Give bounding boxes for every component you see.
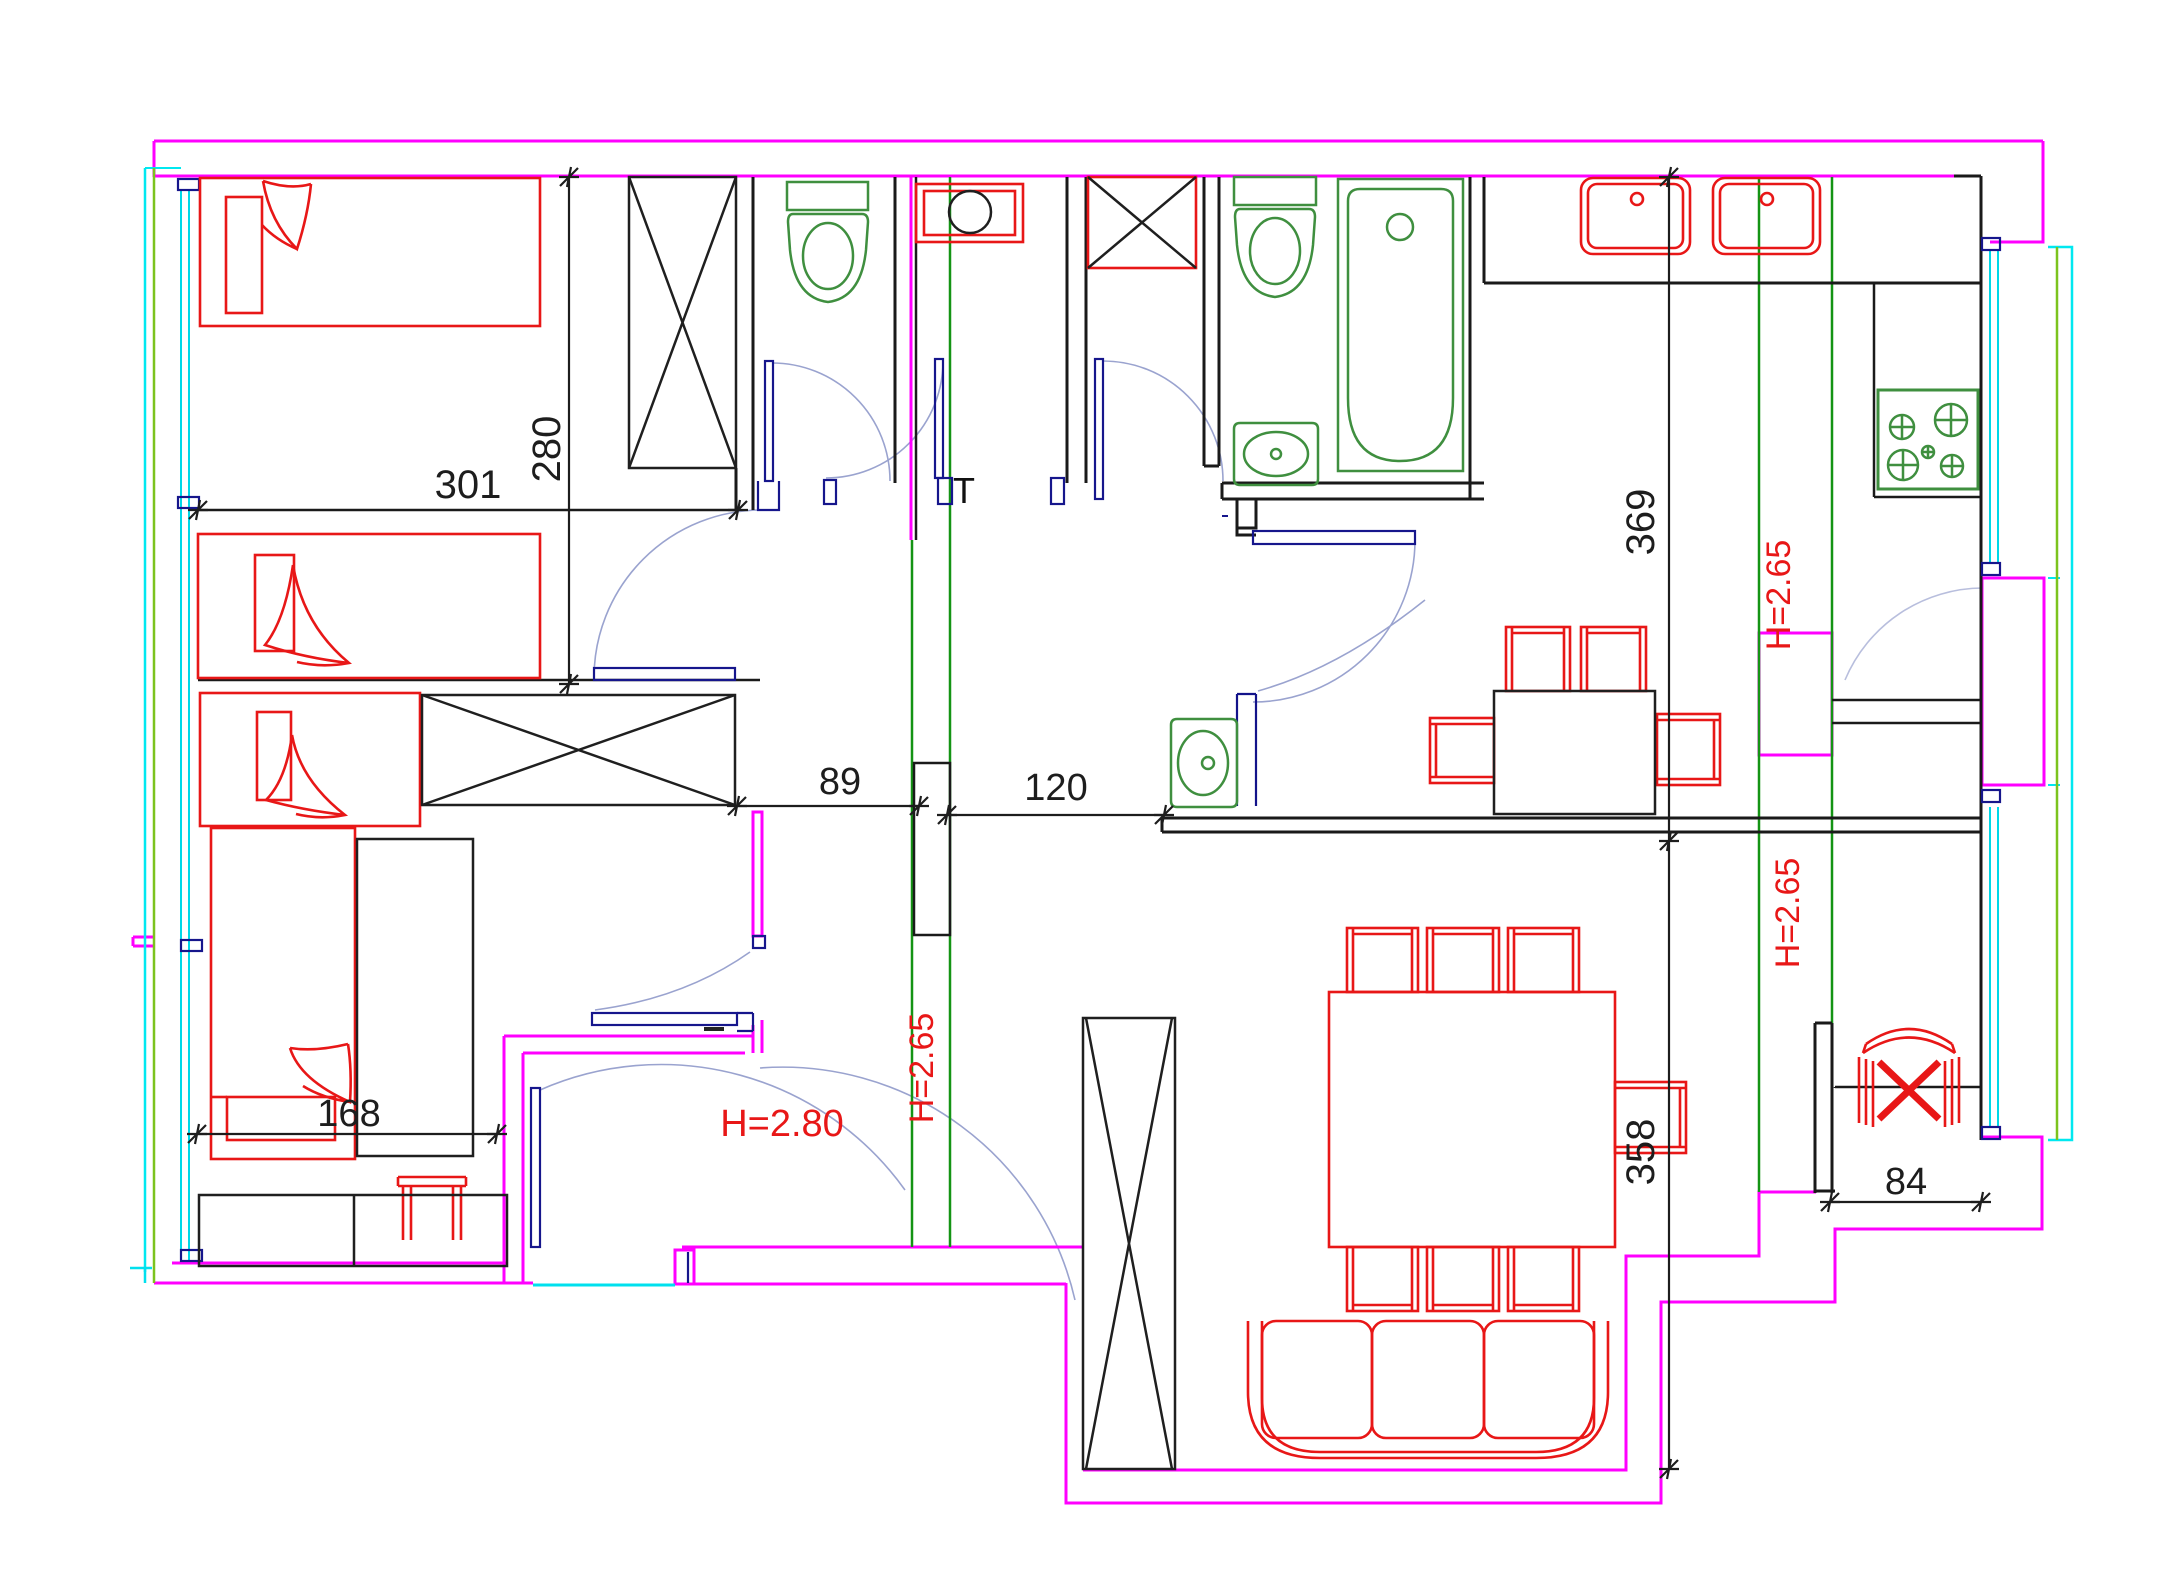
svg-text:89: 89 (819, 761, 861, 803)
bed 3 blanket curl (266, 735, 345, 817)
outer boundary left jog (153, 141, 156, 177)
kitchen sink 1 outer (1581, 178, 1690, 254)
kitchen sink 1 tap (1631, 193, 1643, 205)
pantry niche magenta (1759, 633, 1832, 755)
balcony door frame dining (1982, 578, 2044, 785)
bottom entrance sill cyan (533, 1284, 675, 1287)
small table chair left (1430, 718, 1494, 783)
desk chair backrest arc (1863, 1029, 1955, 1053)
shower tray outer (916, 184, 1023, 242)
hob burner 2 (1935, 404, 1967, 436)
desk chair X (1879, 1062, 1939, 1119)
sofa seat 1 (1262, 1321, 1372, 1438)
door swing arc bedroom2 door (594, 510, 762, 678)
svg-text:168: 168 (317, 1093, 380, 1135)
hob burner 4 (1941, 455, 1963, 477)
svg-text:84: 84 (1885, 1161, 1927, 1203)
dim 120 line (947, 814, 1164, 816)
desk chair left arm (1859, 1057, 1873, 1127)
washing machine red box (1088, 177, 1196, 268)
small table chair top-right (1581, 627, 1646, 691)
sofa seat 2 (1372, 1321, 1484, 1438)
door swing arc bedroom3 door (595, 952, 750, 1010)
hall south wall outer magenta (689, 1283, 1066, 1286)
door leaf bedroom1 (765, 361, 773, 481)
kitchen pass shelf lines (1832, 700, 1980, 723)
toilet 2 seat ellipse (1250, 218, 1300, 284)
corridor wall black line (915, 177, 918, 540)
hall pier lower magenta (753, 1020, 762, 1053)
bed 4 pillow (227, 1097, 335, 1140)
lintel bar bedroom3 door (592, 1013, 737, 1025)
right facade cyan mid caps (2048, 578, 2060, 785)
door swing arc bedroom1 door (772, 363, 890, 481)
WC1 east wall (894, 177, 897, 483)
green beam line corridor east (949, 177, 952, 1247)
dim 84 line (1830, 1201, 1981, 1203)
top wall black segment right (1954, 175, 1981, 178)
svg-text:H=2.65: H=2.65 (1760, 540, 1798, 651)
door swing arc WC2 door (1103, 361, 1223, 481)
sofa living room outer shell (1248, 1321, 1608, 1458)
dining chair top 3 (1508, 928, 1579, 992)
left facade green line (153, 168, 156, 1283)
black dash on lintel (704, 1027, 724, 1031)
bottom-left boundary magenta (154, 1282, 533, 1285)
svg-text:H=2.65: H=2.65 (1769, 858, 1807, 969)
right window bracket 4 (1982, 1127, 2000, 1139)
svg-text:369: 369 (1619, 489, 1663, 556)
bathroom west wall double (1204, 177, 1219, 466)
right window bracket 3 (1982, 790, 2000, 802)
hall west wall inner magenta (523, 1053, 745, 1284)
kitchen counter line (1484, 282, 1980, 285)
dim 369 line (1668, 177, 1670, 841)
bathroom sink (1234, 423, 1318, 485)
dim 301 ticks (188, 500, 208, 520)
entrance pier magenta (675, 1250, 694, 1284)
bedroom2-3 dividing wall (198, 679, 760, 682)
WC1 west wall double (736, 177, 753, 510)
dining chair right (1615, 1082, 1686, 1153)
hob square (1878, 390, 1978, 489)
toilet 2 cistern (1234, 177, 1316, 205)
door jamb bedroom3 pier bracket (753, 936, 765, 948)
desk right black edge (1834, 1087, 1837, 1088)
toilet 2 bowl (1235, 209, 1315, 297)
desk bedroom3 (357, 839, 473, 1156)
lintel bar bedroom3 corner (737, 1013, 753, 1031)
small table kitchen (1494, 691, 1655, 814)
window sill bracket left bottom (181, 1250, 202, 1261)
toilet 1 seat ellipse (803, 223, 853, 289)
bed 3 (200, 693, 420, 826)
left wall jog magenta (133, 937, 155, 946)
hall west wall outer magenta (504, 1036, 754, 1283)
inner wall living room magenta (1083, 1192, 1816, 1470)
shower tray inner (924, 191, 1015, 235)
window sill bracket left mid (178, 497, 199, 508)
green beam line corridor west (911, 540, 914, 1247)
dining chair bottom 1 (1347, 1247, 1418, 1311)
outer boundary right top vertical (1990, 141, 2043, 242)
bed 1 (200, 178, 540, 326)
dining chair bottom 3 (1508, 1247, 1579, 1311)
bathtub outer (1338, 179, 1463, 471)
inner top wall magenta (154, 175, 1954, 178)
door swing arc WC3 door (1258, 600, 1425, 691)
washing machine X black cross (1088, 177, 1196, 268)
dim 358 line (1668, 841, 1670, 1469)
green beam line kitchen east (1831, 177, 1834, 1023)
hall south wall inner magenta (682, 1246, 1083, 1249)
outer boundary top magenta (154, 140, 2043, 143)
bed 4 inner edge (211, 1096, 227, 1099)
dining room north wall double (1162, 818, 1980, 832)
dining chair bottom 2 (1427, 1247, 1499, 1311)
window sill bracket left low (181, 940, 202, 951)
right window glazing lower cyan (1990, 807, 1998, 1127)
door swing arc entrance door leaf2 (760, 1067, 1075, 1300)
desk wall line right (1835, 1086, 1982, 1089)
window sill bracket left top (178, 179, 199, 190)
door swing arc WC shower door (826, 361, 943, 478)
svg-text:120: 120 (1024, 767, 1087, 809)
bathroom sink basin (1244, 432, 1308, 476)
hob burner center (1922, 446, 1934, 458)
door foot WC1 (824, 480, 836, 504)
svg-text:280: 280 (525, 416, 569, 483)
hob counter side line (1873, 283, 1876, 497)
wall bathroom-kitchen west line (1469, 177, 1472, 499)
kitchen sink 2 outer (1713, 178, 1820, 254)
WC3 jamb (1237, 694, 1256, 806)
wardrobe 1 bedroom1 (629, 177, 736, 468)
bed 2 (198, 534, 540, 678)
desk chair right arm (1945, 1057, 1959, 1127)
left facade cyan top caps (145, 167, 181, 169)
sofa living room outer (1262, 1321, 1594, 1452)
wardrobe 2 bedroom2 (422, 695, 735, 805)
WC3 toilet body (1171, 719, 1237, 807)
bed 4 sofa-bed (211, 828, 355, 1159)
right window bracket 1 (1982, 238, 2000, 250)
sofa seat 3 (1484, 1321, 1594, 1438)
bathtub inner (1348, 189, 1453, 461)
bedroom3 door pier magenta (753, 812, 762, 936)
WC3 toilet bowl ellipse (1178, 731, 1228, 795)
dim 280 line (568, 177, 570, 684)
hob burner 3 (1888, 450, 1918, 480)
bathroom door step lower (1237, 528, 1256, 535)
bathroom door step black (1237, 499, 1256, 528)
bed 2 pillow (255, 555, 294, 651)
svg-text:301: 301 (435, 463, 502, 507)
bottom-left corner cyan (130, 1268, 152, 1283)
svg-text:H=2.80: H=2.80 (720, 1103, 844, 1145)
utility shaft column (914, 763, 950, 935)
kitchen right wall black (1980, 176, 1983, 1140)
bathroom south wall double (1222, 483, 1484, 499)
left facade cyan line outer (144, 168, 147, 1272)
left facade window glazing cyan pair (181, 190, 189, 1262)
wall bathroom-kitchen east line (1483, 177, 1486, 283)
lintel bar bedroom2 door (594, 668, 735, 680)
bathroom lintel bar (1253, 531, 1415, 544)
bathroom sink drain (1271, 449, 1281, 459)
kitchen sink 2 tap (1761, 193, 1773, 205)
svg-text:358: 358 (1619, 1119, 1663, 1186)
bed 4 blanket curl (290, 1044, 351, 1102)
bathtub ledge navy (1222, 515, 1228, 517)
dim 168 line (197, 1133, 497, 1135)
kitchen east lower wall double (1815, 1023, 1835, 1193)
green beam line kitchen west (1758, 177, 1761, 1192)
dim 89 line (737, 805, 919, 807)
small table chair top-left (1506, 627, 1570, 691)
bed 2 blanket curl (265, 565, 349, 665)
magenta pocket right lower (1066, 1137, 2042, 1503)
WC3 toilet drain (1202, 757, 1214, 769)
WC2 west wall double (1067, 177, 1086, 483)
tall wardrobe living room (1083, 1018, 1175, 1469)
bathtub drain circle (1387, 214, 1413, 240)
right facade green line (2056, 247, 2059, 1140)
door foot WC shower (938, 478, 952, 504)
bed 3 pillow (257, 712, 291, 800)
door leaf bedroom1 foot (758, 481, 779, 510)
small table chair right (1657, 714, 1720, 785)
bottom-left inner wall magenta (172, 1262, 507, 1265)
shower box circle (949, 191, 991, 233)
door foot WC2 (1051, 478, 1064, 504)
kitchen sink 2 inner (1720, 184, 1813, 248)
entrance pier bracket (687, 1252, 689, 1283)
entrance door leaf (531, 1088, 540, 1247)
door swing arc bathroom door (1253, 540, 1415, 702)
magenta wall line corridor (910, 177, 913, 540)
hob burner 1 (1890, 415, 1914, 439)
door swing arc entrance door leaf1 (540, 1065, 905, 1190)
right facade cyan outer box (2048, 247, 2072, 1140)
bed 1 pillow (226, 197, 262, 313)
toilet 1 cistern (787, 182, 868, 210)
right window glazing upper cyan (1990, 250, 1998, 563)
right window bracket 2 (1982, 563, 2000, 575)
toilet 1 bowl (788, 214, 868, 302)
bedroom1-2 dividing wall (198, 509, 738, 512)
kitchen sink 1 inner (1588, 184, 1683, 248)
dining chair top 2 (1427, 928, 1499, 992)
bed 1 blanket curl (262, 181, 311, 249)
dining chair top 1 (1347, 928, 1418, 992)
svg-text:H=2.65: H=2.65 (903, 1013, 941, 1124)
door swing arc balcony door dining (1845, 588, 1983, 680)
dining table (1329, 992, 1615, 1247)
svg-text:T: T (953, 470, 975, 511)
door leaf WC2 (1095, 359, 1103, 499)
hob shelf line (1874, 496, 1980, 499)
door leaf WC shower (935, 359, 943, 478)
stool red (398, 1177, 466, 1240)
TV cabinet (199, 1195, 507, 1266)
